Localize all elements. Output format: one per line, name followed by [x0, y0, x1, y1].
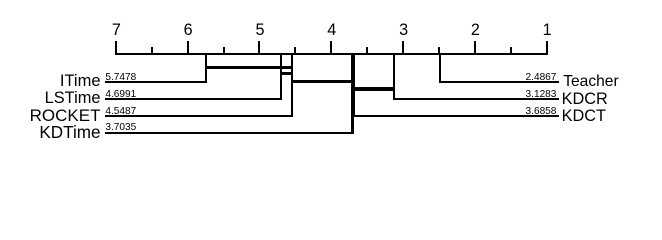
line from rank 3.1283 to KDCR label: [393, 98, 560, 100]
axis number 4: [327, 22, 336, 38]
major tick at rank 6: [187, 41, 189, 55]
score 5.7478 for ITime: [105, 73, 136, 83]
label LSTime: [45, 90, 101, 106]
major tick at rank 3: [402, 41, 404, 55]
line from rank 3.6858 to KDCT label: [353, 115, 560, 117]
label KDTime: [39, 124, 100, 141]
axis number 2: [471, 22, 480, 38]
riser for KDTime at rank 3.7035: [351, 53, 353, 134]
clique bar ITime-LSTime-ROCKET: [205, 66, 293, 69]
riser for LSTime at rank 4.6991: [280, 53, 282, 101]
score 3.7035 for KDTime: [105, 123, 136, 133]
score 4.6991 for LSTime: [105, 90, 136, 100]
line from LSTime label to rank 4.6991: [105, 98, 282, 100]
axis number 7: [112, 22, 121, 38]
riser for KDCT at rank 3.6858: [353, 53, 355, 118]
axis number 6: [184, 22, 193, 38]
minor tick at rank 1.5: [510, 47, 512, 55]
riser for KDCR at rank 3.1283: [393, 53, 395, 101]
score 3.1283 for KDCR: [526, 90, 557, 100]
major tick at rank 2: [474, 41, 476, 55]
clique bar ROCKET-KDTime-KDCT: [291, 80, 355, 84]
riser for ITime at rank 5.7478: [205, 53, 207, 84]
score 2.4867 for Teacher: [526, 73, 557, 83]
label KDCR: [562, 91, 608, 107]
line from ROCKET label to rank 4.5487: [105, 115, 293, 117]
minor tick at rank 2.5: [438, 47, 440, 55]
line from KDTime label to rank 3.7035: [105, 132, 354, 134]
major tick at rank 5: [258, 41, 260, 55]
minor tick at rank 6.5: [151, 47, 153, 55]
label ITime: [60, 73, 101, 90]
score 3.6858 for KDCT: [526, 107, 557, 117]
line from rank 2.4867 to Teacher label: [439, 81, 559, 83]
major tick at rank 4: [330, 41, 332, 55]
minor tick at rank 4.5: [294, 47, 296, 55]
major tick at rank 7: [115, 41, 117, 55]
label KDCT: [562, 108, 606, 124]
line from ITime label to rank 5.7478: [105, 81, 207, 83]
clique bar KDTime-KDCT-KDCR: [351, 87, 395, 91]
riser for Teacher at rank 2.4867: [439, 53, 441, 84]
clique bar LSTime-ROCKET: [280, 72, 293, 75]
label ROCKET: [30, 107, 101, 124]
axis line (rank scale 7 to 1): [115, 53, 548, 55]
minor tick at rank 3.5: [366, 47, 368, 55]
riser for ROCKET at rank 4.5487: [291, 53, 293, 118]
score 4.5487 for ROCKET: [105, 107, 136, 117]
label Teacher: [563, 74, 618, 90]
axis number 5: [255, 22, 264, 38]
minor tick at rank 5.5: [223, 47, 225, 55]
axis number 3: [399, 22, 408, 38]
major tick at rank 1: [546, 41, 548, 55]
axis number 1: [543, 22, 552, 38]
